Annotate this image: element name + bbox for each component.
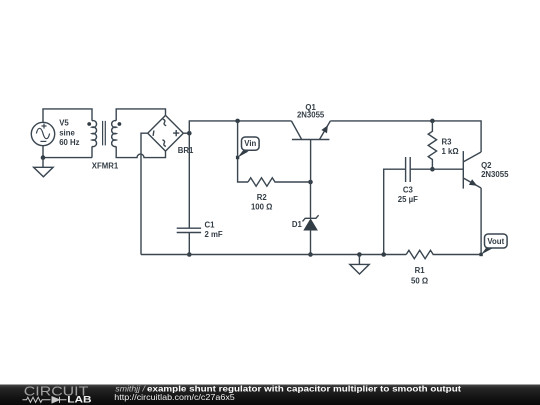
wire top rail Q1 emitter to Q2 collector	[330, 121, 481, 152]
node junction V5 ground	[41, 155, 46, 160]
node junction C3 branch bottom	[381, 252, 386, 257]
svg-text:R3: R3	[442, 138, 453, 147]
capacitor C3	[406, 157, 411, 182]
svg-text:2 mF: 2 mF	[205, 230, 223, 239]
wire secondary bottom to bridge with hop	[116, 146, 165, 157]
svg-text:http://circuitlab.com/c/c27a6x: http://circuitlab.com/c/c27a6x5	[114, 393, 235, 402]
wire Vin branch down to R2	[238, 121, 248, 182]
node label Vout	[479, 234, 507, 256]
svg-text:V5: V5	[59, 119, 69, 128]
capacitor C1	[177, 228, 201, 232]
node junction R2 base D1	[308, 180, 313, 185]
bridge rectifier BR1	[148, 115, 184, 151]
svg-text:100 Ω: 100 Ω	[251, 203, 272, 212]
wire Q1 base to D1	[310, 182, 312, 218]
node junction R3 bottom	[430, 167, 435, 172]
transistor Q1	[291, 121, 330, 182]
svg-text:Vout: Vout	[487, 237, 504, 246]
node junction ground bottom	[357, 252, 362, 257]
svg-text:sine: sine	[59, 129, 75, 138]
svg-text:smithjj /: smithjj /	[115, 383, 146, 393]
wire Q2 emitter down to Vout	[480, 188, 482, 255]
svg-text:2N3055: 2N3055	[297, 111, 325, 120]
svg-text:LAB: LAB	[67, 395, 92, 405]
svg-text:1 kΩ: 1 kΩ	[442, 147, 459, 156]
wire C3 to Q2 base	[410, 168, 463, 170]
wire C3 left branch	[384, 169, 406, 254]
transformer XFMR1	[87, 121, 121, 147]
wire V5 bottom to primary bottom	[43, 146, 92, 158]
wire V5 top to primary	[43, 109, 92, 122]
svg-text:example shunt regulator with c: example shunt regulator with capacitor m…	[147, 383, 461, 393]
wire secondary top to bridge	[116, 109, 165, 121]
ground below V5	[34, 158, 54, 177]
resistor R1	[406, 250, 481, 258]
footer bar	[0, 385, 540, 405]
wire bottom rail	[141, 254, 406, 256]
svg-text:Q2: Q2	[481, 161, 492, 170]
resistor R2	[248, 178, 311, 186]
svg-text:R2: R2	[257, 193, 268, 202]
transistor Q2	[463, 151, 481, 189]
svg-text:C1: C1	[205, 220, 216, 229]
voltage source V5	[31, 122, 54, 145]
svg-text:D1: D1	[292, 220, 303, 229]
node junction C1 bottom	[187, 252, 192, 257]
svg-text:Vin: Vin	[244, 139, 256, 148]
wire bridge right output	[183, 132, 189, 134]
svg-text:60 Hz: 60 Hz	[59, 138, 79, 147]
wire C1 to bottom rail	[188, 233, 190, 255]
zener diode D1	[303, 215, 319, 230]
node junction R3 top	[430, 119, 435, 124]
node label Vin	[236, 137, 259, 159]
svg-text:50 Ω: 50 Ω	[411, 276, 428, 285]
wire BR1 to top rail	[189, 121, 291, 133]
wire BR1 down to C1	[188, 133, 190, 228]
wire bridge left output down	[141, 133, 148, 254]
node junction Vin tap	[235, 119, 240, 124]
svg-text:BR1: BR1	[178, 146, 194, 155]
resistor R3	[428, 121, 436, 169]
logo resistor-diode squiggle	[23, 397, 67, 403]
node junction D1 bottom	[308, 252, 313, 257]
svg-text:R1: R1	[415, 266, 426, 275]
svg-text:C3: C3	[403, 186, 414, 195]
svg-text:2N3055: 2N3055	[481, 170, 509, 179]
wire D1 to bottom rail	[310, 230, 312, 255]
node junction BR1 plus	[187, 131, 192, 136]
ground bottom middle	[350, 255, 369, 275]
svg-text:25 µF: 25 µF	[398, 195, 418, 204]
svg-text:XFMR1: XFMR1	[92, 162, 119, 171]
